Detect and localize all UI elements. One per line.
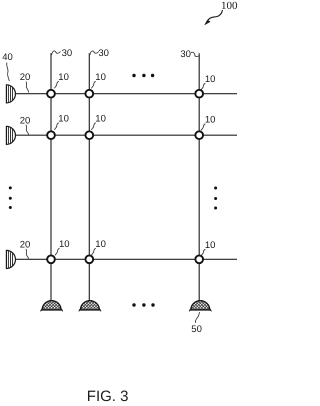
memory cell 10 (row1,col1) bbox=[47, 90, 55, 98]
memory cell 10 (row2,col1) bbox=[47, 131, 55, 139]
arrow for label 100 bbox=[205, 10, 223, 25]
leader squiggle 10 r3c1 bbox=[55, 248, 59, 255]
memory cell 10 (row1,col2) bbox=[85, 90, 93, 98]
bit line 30 (column 3 vertical wire) bbox=[198, 53, 200, 301]
memory cell 10 (row3,col2) bbox=[85, 255, 93, 263]
svg-text:30: 30 bbox=[62, 48, 73, 59]
memory cell 10 (row3,col1) bbox=[47, 255, 55, 263]
ellipsis dots (top, between col2 and col3) bbox=[132, 74, 154, 77]
leader squiggle 30 col1 bbox=[52, 51, 61, 55]
leader squiggle 40 bbox=[7, 63, 10, 82]
leader squiggle 10 r2c1 bbox=[54, 123, 58, 130]
memory cell 10 (row2,col2) bbox=[85, 131, 93, 139]
ellipsis dots (bottom, between col2 and col3) bbox=[132, 303, 154, 306]
leader squiggle 20 row1 bbox=[26, 82, 29, 93]
bit line 30 (column 1 vertical wire) bbox=[50, 53, 52, 301]
svg-text:FIG. 3: FIG. 3 bbox=[87, 388, 129, 405]
memory cell 10 (row2,col3) bbox=[195, 131, 203, 139]
svg-text:10: 10 bbox=[205, 240, 216, 251]
leader squiggle 10 r2c3 bbox=[201, 124, 205, 131]
svg-text:20: 20 bbox=[20, 115, 31, 126]
leader squiggle 10 r1c3 bbox=[201, 83, 205, 90]
svg-text:30: 30 bbox=[180, 49, 191, 60]
ellipsis dots (left, between row2 and row3) bbox=[9, 186, 12, 209]
svg-text:50: 50 bbox=[191, 324, 202, 335]
svg-text:10: 10 bbox=[59, 239, 70, 250]
bit line 30 (column 2 vertical wire) bbox=[88, 53, 90, 301]
svg-text:10: 10 bbox=[58, 72, 69, 83]
driver 40 (row 3 half-disc, hatched) bbox=[6, 250, 15, 268]
memory cell 10 (row3,col3) bbox=[195, 255, 203, 263]
sink 50 (column 1 dome, crosshatched) bbox=[37, 276, 67, 346]
sink 50 (column 3 dome, crosshatched) bbox=[185, 276, 215, 346]
svg-text:10: 10 bbox=[95, 114, 106, 125]
svg-text:10: 10 bbox=[205, 74, 216, 85]
svg-text:10: 10 bbox=[95, 239, 106, 250]
leader squiggle 20 row2 bbox=[26, 125, 29, 135]
svg-text:20: 20 bbox=[20, 72, 31, 83]
svg-text:20: 20 bbox=[20, 240, 31, 251]
svg-text:10: 10 bbox=[205, 115, 216, 126]
leader squiggle 30 col2 bbox=[90, 51, 99, 55]
driver 40 (row 2 half-disc, hatched) bbox=[6, 126, 15, 144]
svg-text:30: 30 bbox=[98, 48, 109, 59]
ellipsis dots (right, between row2 and row3) bbox=[214, 187, 217, 210]
driver 40 (row 1 half-disc, hatched) bbox=[6, 85, 15, 103]
leader squiggle 30 col3 bbox=[191, 52, 199, 56]
leader squiggle 10 r2c2 bbox=[91, 123, 95, 130]
svg-text:100: 100 bbox=[221, 0, 238, 12]
word line 20 (row 1 horizontal wire) bbox=[15, 93, 237, 95]
leader squiggle 10 r3c3 bbox=[201, 249, 205, 256]
svg-text:10: 10 bbox=[95, 72, 106, 83]
memory cell 10 (row1,col3) bbox=[195, 90, 203, 98]
leader squiggle 10 r1c1 bbox=[54, 81, 58, 88]
svg-text:10: 10 bbox=[58, 114, 69, 125]
leader squiggle 10 r3c2 bbox=[91, 248, 95, 255]
sink 50 (column 2 dome, crosshatched) bbox=[75, 276, 105, 346]
leader squiggle 10 r1c2 bbox=[91, 81, 95, 88]
svg-text:40: 40 bbox=[2, 52, 13, 63]
leader squiggle 20 row3 bbox=[26, 249, 29, 259]
word line 20 (row 3 horizontal wire) bbox=[15, 258, 237, 260]
word line 20 (row 2 horizontal wire) bbox=[15, 134, 237, 136]
leader squiggle 50 bbox=[195, 312, 199, 323]
